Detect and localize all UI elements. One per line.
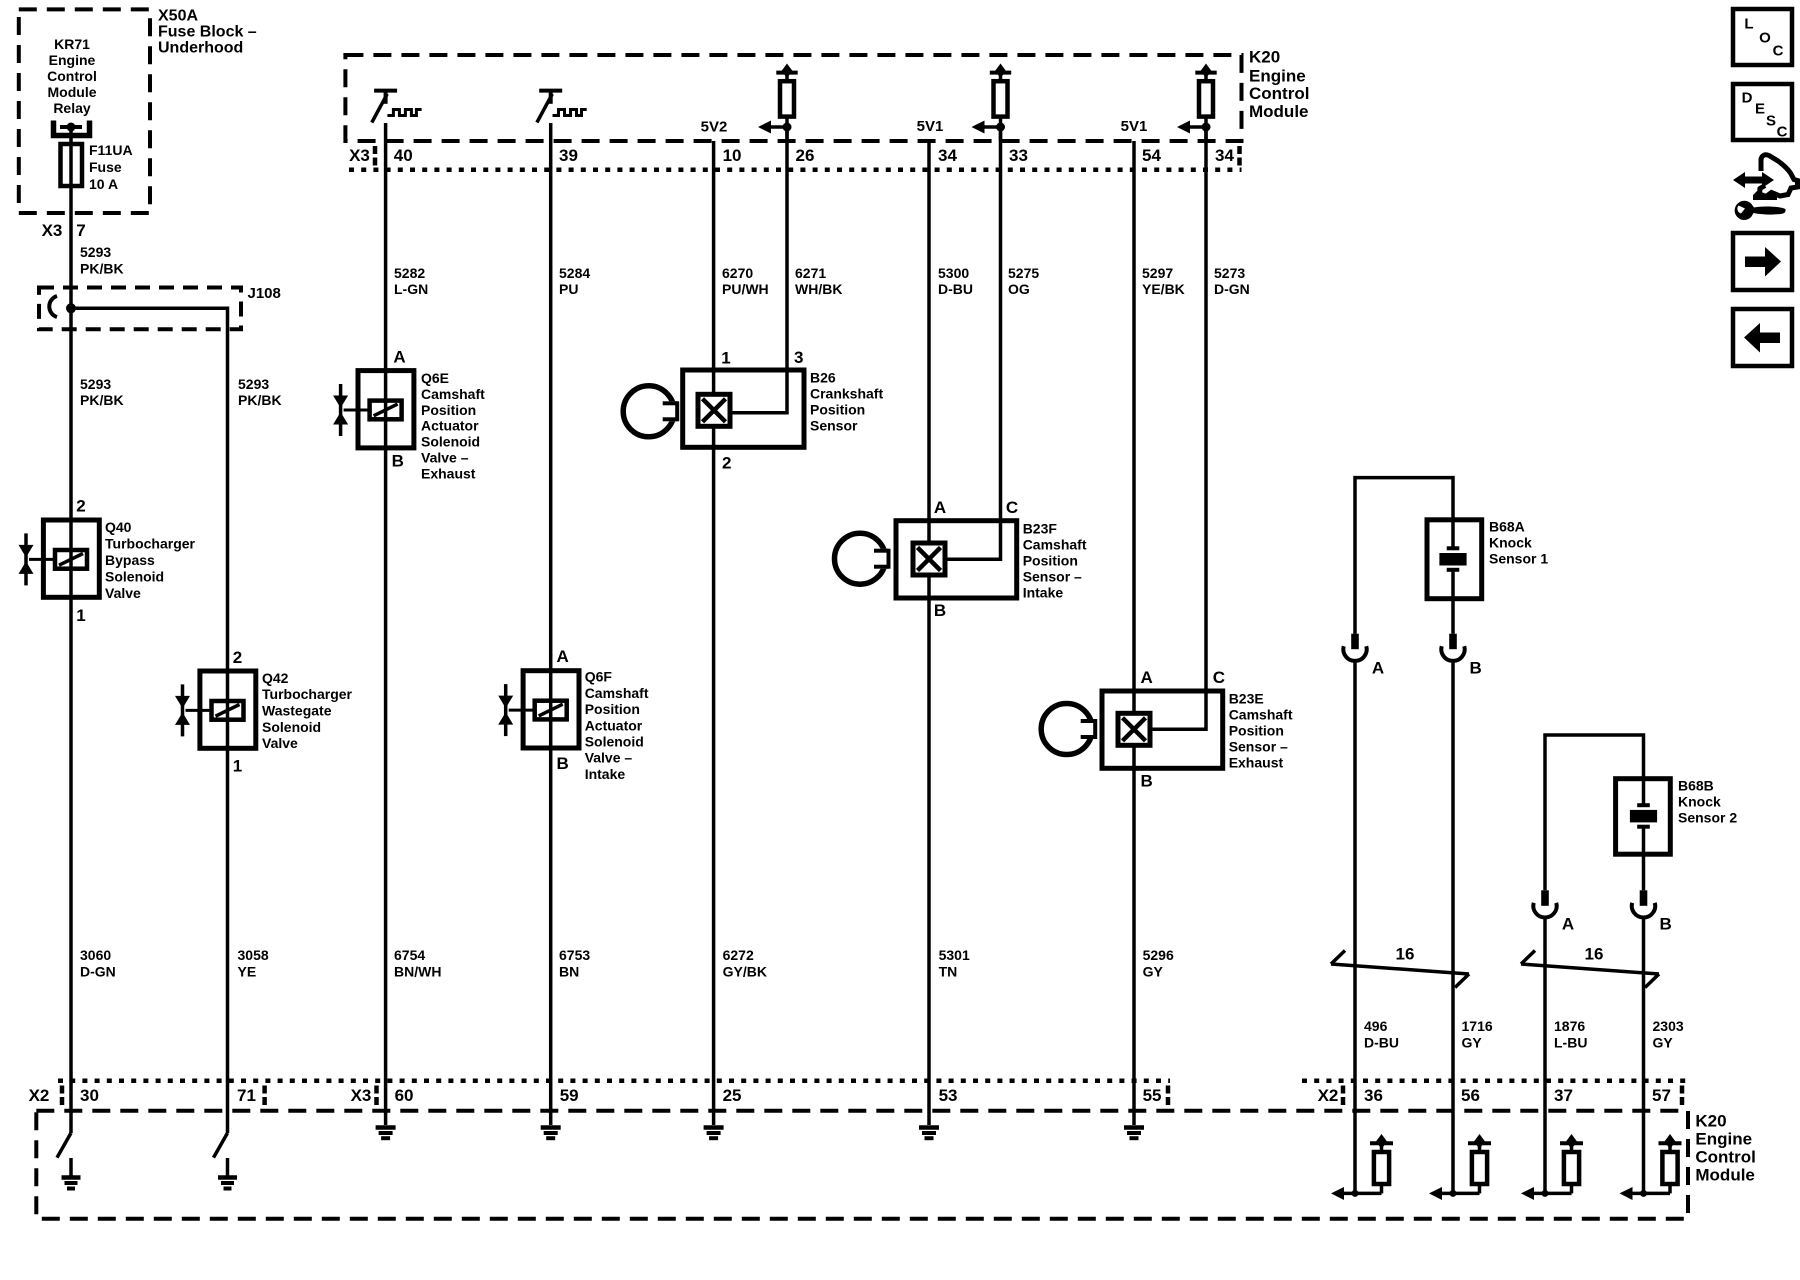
svg-text:L: L — [1744, 16, 1753, 33]
label wire 6753 BN — [559, 947, 590, 980]
svg-text:3060: 3060 — [80, 947, 111, 963]
wire B68B loop to pin A — [1545, 735, 1644, 890]
inline connector A knock sensor 1 — [1343, 634, 1366, 661]
svg-text:Intake: Intake — [585, 766, 626, 782]
svg-text:B23F: B23F — [1023, 521, 1058, 537]
wire B68A pin B lead — [1451, 599, 1455, 634]
pullup resistor pin 33 — [972, 64, 1012, 142]
label B68A Knock Sensor 1 — [1489, 519, 1548, 567]
svg-text:B68B: B68B — [1678, 778, 1714, 794]
svg-text:Q6E: Q6E — [421, 370, 449, 386]
svg-text:Solenoid: Solenoid — [105, 569, 164, 585]
reluctor ring B23E — [1041, 704, 1096, 755]
label wire 5297 YE/BK — [1142, 265, 1185, 297]
svg-text:B: B — [392, 452, 404, 471]
solenoid valve Q6E — [333, 371, 414, 448]
inline connector B knock sensor 1 — [1441, 634, 1464, 661]
label X50A Fuse Block Underhood — [158, 8, 257, 57]
svg-text:Camshaft: Camshaft — [1229, 707, 1293, 723]
label wire 5284 PU — [559, 265, 590, 297]
svg-text:39: 39 — [559, 146, 578, 165]
svg-text:C: C — [1777, 124, 1788, 141]
label relay KR71 — [47, 36, 97, 116]
svg-text:Module: Module — [48, 84, 97, 100]
svg-text:A: A — [557, 647, 569, 666]
label wire 5293 PK/BK left — [80, 376, 124, 408]
svg-text:10 A: 10 A — [89, 176, 118, 192]
label wire 496 D-BU — [1364, 1018, 1399, 1051]
svg-text:Knock: Knock — [1489, 535, 1532, 551]
svg-text:Control: Control — [1695, 1148, 1755, 1167]
svg-text:C: C — [1213, 668, 1225, 687]
label B23F pins A C B — [934, 498, 1018, 620]
svg-text:X3: X3 — [349, 146, 370, 165]
label connector letters A B knock sensor 2 — [1562, 915, 1672, 934]
svg-text:Exhaust: Exhaust — [1229, 755, 1284, 771]
label wire 6271 WH/BK — [795, 265, 842, 297]
label connector X3 pin 7 — [42, 221, 86, 240]
label wire 6272 GY/BK — [723, 947, 767, 980]
svg-text:56: 56 — [1461, 1086, 1480, 1105]
svg-text:Valve: Valve — [105, 585, 141, 601]
sensor B26 crankshaft position — [683, 370, 804, 447]
svg-text:5297: 5297 — [1142, 265, 1173, 281]
wire 6754 BN/WH — [384, 448, 388, 1081]
wire 496 D-BU — [1353, 662, 1357, 1082]
svg-text:34: 34 — [938, 146, 957, 165]
wire 1716 GY — [1451, 662, 1455, 1082]
label K20 Engine Control Module bottom — [1695, 1112, 1755, 1185]
svg-text:Valve –: Valve – — [585, 750, 633, 766]
svg-text:5284: 5284 — [559, 265, 590, 281]
label B23F Camshaft Position Sensor Intake — [1023, 521, 1087, 601]
ECM internal resistor pin 36 — [1353, 1081, 1357, 1193]
svg-text:6271: 6271 — [795, 265, 826, 281]
svg-text:25: 25 — [723, 1086, 742, 1105]
svg-text:K20: K20 — [1249, 48, 1280, 67]
svg-text:57: 57 — [1652, 1086, 1671, 1105]
svg-text:Fuse: Fuse — [89, 159, 122, 175]
switch to ground pin 30 — [57, 1081, 81, 1189]
svg-text:5296: 5296 — [1143, 947, 1174, 963]
svg-text:Camshaft: Camshaft — [421, 386, 485, 402]
label wire 5273 D-GN — [1214, 265, 1250, 297]
ECM internal resistor pin 56 — [1451, 1081, 1455, 1193]
svg-text:36: 36 — [1364, 1086, 1383, 1105]
piezo element B68A — [1439, 548, 1466, 570]
label Q40 Turbocharger Bypass Solenoid Valve — [105, 519, 196, 601]
svg-text:Intake: Intake — [1023, 585, 1064, 601]
svg-text:Bypass: Bypass — [105, 552, 155, 568]
svg-text:A: A — [934, 498, 946, 517]
label connector letters A B knock sensor 1 — [1372, 659, 1482, 678]
label F11UA Fuse 10 A — [89, 142, 133, 192]
ECM internal resistor pin 37 — [1543, 1081, 1547, 1193]
svg-text:5V2: 5V2 — [701, 119, 728, 136]
wire 5293 PK/BK relay to Q40 — [69, 129, 73, 520]
svg-text:YE/BK: YE/BK — [1142, 281, 1185, 297]
svg-text:X3: X3 — [351, 1086, 372, 1105]
svg-text:Engine: Engine — [1695, 1130, 1752, 1149]
svg-text:PK/BK: PK/BK — [80, 261, 124, 277]
inline connector A knock sensor 2 — [1533, 890, 1556, 917]
svg-text:Q40: Q40 — [105, 519, 132, 535]
svg-text:F11UA: F11UA — [89, 142, 133, 158]
svg-text:6270: 6270 — [722, 265, 753, 281]
top connector separators — [375, 146, 1240, 166]
icon adjust hand wrench — [1733, 155, 1798, 220]
wire 6272 GY/BK — [712, 447, 716, 1081]
wire B68B pin B lead — [1642, 854, 1646, 890]
svg-text:X2: X2 — [29, 1086, 50, 1105]
label wire 1716 GY — [1462, 1018, 1493, 1051]
switch to ground pin 71 — [214, 1081, 238, 1189]
svg-text:1: 1 — [721, 349, 730, 368]
svg-text:53: 53 — [939, 1086, 958, 1105]
ground pin 25 — [712, 1081, 716, 1125]
piezo element B68B — [1630, 805, 1657, 827]
svg-text:Sensor: Sensor — [810, 417, 858, 433]
svg-text:Valve: Valve — [262, 735, 298, 751]
svg-text:5300: 5300 — [938, 265, 969, 281]
svg-text:54: 54 — [1142, 146, 1161, 165]
label wire 5293 PK/BK upper — [80, 244, 124, 277]
label wire 5301 TN — [939, 947, 970, 980]
svg-text:30: 30 — [80, 1086, 99, 1105]
label K20 Engine Control Module top — [1249, 48, 1309, 122]
svg-text:6754: 6754 — [394, 947, 425, 963]
svg-text:PU: PU — [559, 281, 578, 297]
svg-text:B23E: B23E — [1229, 691, 1264, 707]
svg-text:5293: 5293 — [238, 376, 269, 392]
svg-text:L-BU: L-BU — [1554, 1035, 1587, 1051]
svg-text:Wastegate: Wastegate — [262, 703, 332, 719]
svg-text:J108: J108 — [248, 285, 281, 302]
svg-text:3: 3 — [794, 348, 803, 367]
svg-text:Actuator: Actuator — [585, 717, 643, 733]
wire 2303 GY — [1642, 918, 1646, 1081]
svg-text:Module: Module — [1249, 102, 1309, 121]
svg-text:Position: Position — [1229, 723, 1284, 739]
svg-text:16: 16 — [1396, 945, 1415, 964]
svg-text:Underhood: Underhood — [158, 40, 243, 57]
top connector row dotted line — [349, 168, 1242, 173]
pullup resistor pin 34 second — [1177, 64, 1217, 142]
wire B68A loop to pin A — [1355, 478, 1453, 634]
svg-text:Crankshaft: Crankshaft — [810, 385, 883, 401]
svg-text:X50A: X50A — [158, 8, 198, 25]
svg-text:6753: 6753 — [559, 947, 590, 963]
svg-text:Knock: Knock — [1678, 794, 1721, 810]
svg-text:D-GN: D-GN — [1214, 281, 1250, 297]
svg-text:5293: 5293 — [80, 244, 111, 260]
svg-text:5301: 5301 — [939, 947, 970, 963]
label B23E pins A C B — [1141, 668, 1225, 791]
svg-text:PK/BK: PK/BK — [238, 392, 282, 408]
svg-text:KR71: KR71 — [54, 36, 90, 52]
label wire 6270 PU/WH — [722, 265, 769, 297]
ECM K20 bottom dashed box — [36, 1111, 1688, 1219]
driver output pin 39 — [537, 91, 587, 123]
label Q42 pins 2 and 1 — [233, 648, 242, 776]
label wire 5293 PK/BK right — [238, 376, 282, 408]
svg-text:PK/BK: PK/BK — [80, 392, 124, 408]
wire 1876 L-BU — [1543, 918, 1547, 1081]
svg-text:1716: 1716 — [1462, 1018, 1493, 1034]
svg-text:S: S — [1766, 113, 1776, 130]
svg-text:60: 60 — [395, 1086, 414, 1105]
svg-text:Engine: Engine — [49, 52, 96, 68]
inline connector B knock sensor 2 — [1632, 890, 1655, 917]
svg-text:C: C — [1006, 498, 1018, 517]
svg-text:40: 40 — [394, 146, 413, 165]
svg-text:X2: X2 — [1318, 1086, 1339, 1105]
svg-text:C: C — [1773, 43, 1784, 60]
svg-text:37: 37 — [1554, 1086, 1573, 1105]
label Q40 pins 2 and 1 — [76, 497, 85, 626]
svg-text:2: 2 — [722, 454, 731, 473]
svg-text:3058: 3058 — [238, 947, 269, 963]
svg-text:5V1: 5V1 — [917, 118, 944, 135]
label wire 5296 GY — [1143, 947, 1174, 980]
splice J108 dashed box — [39, 288, 241, 330]
ground pin 59 — [549, 1081, 553, 1125]
label wire 3058 YE — [238, 947, 269, 980]
wire 6271 WH/BK — [785, 127, 789, 370]
label wire 2303 GY — [1653, 1018, 1684, 1051]
svg-text:71: 71 — [237, 1086, 256, 1105]
svg-text:Q6F: Q6F — [585, 669, 613, 685]
svg-text:Valve –: Valve – — [421, 449, 469, 465]
svg-text:59: 59 — [560, 1086, 579, 1105]
svg-text:YE: YE — [238, 964, 257, 980]
icon DESC box — [1733, 84, 1792, 141]
svg-text:6272: 6272 — [723, 947, 754, 963]
svg-text:B26: B26 — [810, 369, 836, 385]
svg-text:A: A — [1372, 659, 1384, 678]
wire 5273 D-GN — [1204, 127, 1208, 691]
wire 5301 TN — [927, 598, 931, 1081]
svg-text:2: 2 — [233, 648, 242, 667]
svg-text:D-BU: D-BU — [1364, 1035, 1399, 1051]
wire 5296 GY — [1132, 768, 1136, 1081]
svg-text:Control: Control — [47, 68, 97, 84]
wire 3060 D-GN — [69, 597, 73, 1081]
svg-text:26: 26 — [796, 146, 815, 165]
driver output pin 40 — [372, 91, 422, 123]
svg-text:Camshaft: Camshaft — [585, 685, 649, 701]
svg-text:7: 7 — [76, 221, 85, 240]
svg-text:D: D — [1742, 90, 1753, 107]
svg-text:5293: 5293 — [80, 376, 111, 392]
svg-text:B: B — [1141, 772, 1153, 791]
label Q6E Camshaft Position Actuator Solenoid Valve Exhaust — [421, 370, 485, 481]
label wire 6754 BN/WH — [394, 947, 441, 980]
wire 5282 L-GN — [384, 123, 388, 371]
icon LOC box — [1733, 9, 1792, 65]
node J108 junction — [66, 303, 76, 313]
icon arrow right box — [1733, 233, 1792, 290]
ground pin 55 — [1132, 1081, 1136, 1125]
svg-text:Solenoid: Solenoid — [262, 719, 321, 735]
svg-text:K20: K20 — [1695, 1112, 1726, 1131]
svg-text:WH/BK: WH/BK — [795, 281, 842, 297]
label Q6F pins A and B — [557, 647, 569, 773]
svg-text:PU/WH: PU/WH — [722, 281, 769, 297]
ground pin 60 — [384, 1081, 388, 1125]
svg-text:5V1: 5V1 — [1121, 118, 1148, 135]
label wire 5275 OG — [1008, 265, 1039, 297]
svg-text:OG: OG — [1008, 281, 1030, 297]
wire B68B internal — [1642, 779, 1646, 855]
icon arrow left box — [1733, 309, 1792, 366]
svg-text:A: A — [1562, 915, 1574, 934]
reluctor ring B26 — [623, 386, 678, 437]
svg-text:16: 16 — [1585, 945, 1604, 964]
svg-text:33: 33 — [1009, 146, 1028, 165]
svg-text:1: 1 — [76, 606, 85, 625]
svg-text:B: B — [934, 601, 946, 620]
label B26 pins 1 3 2 — [721, 348, 803, 473]
svg-text:GY/BK: GY/BK — [723, 964, 767, 980]
svg-text:5282: 5282 — [394, 265, 425, 281]
sensor B23E camshaft position exhaust — [1102, 691, 1223, 768]
svg-text:Exhaust: Exhaust — [421, 465, 476, 481]
svg-text:2: 2 — [76, 497, 85, 516]
wire B68A internal — [1451, 520, 1455, 599]
svg-text:Solenoid: Solenoid — [421, 434, 480, 450]
svg-text:Solenoid: Solenoid — [585, 734, 644, 750]
svg-text:BN/WH: BN/WH — [394, 964, 441, 980]
svg-text:GY: GY — [1653, 1035, 1674, 1051]
svg-text:D-BU: D-BU — [938, 281, 973, 297]
svg-text:Actuator: Actuator — [421, 418, 479, 434]
bottom connector row dotted line right — [1302, 1078, 1688, 1083]
wire 5275 OG — [999, 127, 1003, 521]
svg-text:X3: X3 — [42, 221, 63, 240]
svg-text:Sensor 2: Sensor 2 — [1678, 810, 1737, 826]
knock sensor B68B box — [1616, 779, 1671, 855]
ground pin 53 — [927, 1081, 931, 1125]
svg-text:Turbocharger: Turbocharger — [262, 686, 353, 702]
svg-text:5273: 5273 — [1214, 265, 1245, 281]
relay KR71 contact symbol — [54, 121, 90, 136]
svg-text:B: B — [557, 754, 569, 773]
svg-text:Fuse Block –: Fuse Block – — [158, 24, 257, 41]
wire 6270 PU/WH pin 10 — [712, 141, 716, 370]
svg-text:1: 1 — [233, 757, 242, 776]
bottom connector row dotted line left — [58, 1078, 1170, 1083]
wire 5300 D-BU pin 34 — [927, 141, 931, 521]
fuse block X50A dashed box — [19, 9, 150, 213]
svg-text:Sensor 1: Sensor 1 — [1489, 551, 1548, 567]
label Q6E pins A and B — [392, 348, 406, 471]
wire 6753 BN — [549, 748, 553, 1081]
svg-text:L-GN: L-GN — [394, 281, 428, 297]
svg-text:Turbocharger: Turbocharger — [105, 536, 196, 552]
svg-text:55: 55 — [1143, 1086, 1162, 1105]
solenoid valve Q42 — [175, 671, 256, 748]
svg-text:Sensor –: Sensor – — [1229, 739, 1288, 755]
svg-text:34: 34 — [1215, 146, 1234, 165]
label Q42 Turbocharger Wastegate Solenoid Valve — [262, 670, 353, 751]
svg-text:5275: 5275 — [1008, 265, 1039, 281]
svg-text:Engine: Engine — [1249, 66, 1306, 85]
bottom connector separators — [62, 1086, 1682, 1106]
svg-text:GY: GY — [1462, 1035, 1483, 1051]
svg-text:Position: Position — [421, 402, 476, 418]
svg-text:BN: BN — [559, 964, 579, 980]
ECM K20 top dashed box — [345, 55, 1241, 141]
svg-text:Position: Position — [1023, 553, 1078, 569]
pickup element B23F — [913, 543, 945, 575]
svg-text:A: A — [393, 348, 405, 367]
pullup resistor pin 26 — [758, 64, 798, 142]
sensor B23F camshaft position intake — [896, 521, 1017, 598]
label wire 5282 L-GN — [394, 265, 428, 297]
ECM internal resistor pin 57 — [1642, 1081, 1646, 1193]
label B68B Knock Sensor 2 — [1678, 778, 1737, 826]
wire jumper J108 to Q42 — [71, 308, 228, 671]
twisted pair 16 knock sensor 1 — [1331, 951, 1469, 988]
svg-text:A: A — [1141, 668, 1153, 687]
label Q6F Camshaft Position Actuator Solenoid Valve Intake — [585, 669, 649, 782]
svg-text:GY: GY — [1143, 964, 1164, 980]
svg-text:Position: Position — [810, 401, 865, 417]
svg-text:10: 10 — [723, 146, 742, 165]
svg-text:Q42: Q42 — [262, 670, 289, 686]
svg-text:B: B — [1469, 659, 1481, 678]
label wire 3060 D-GN — [80, 947, 116, 980]
wire 5297 YE/BK pin 54 — [1132, 141, 1136, 691]
label B26 Crankshaft Position Sensor — [810, 369, 883, 433]
solenoid valve Q40 — [19, 520, 100, 597]
svg-text:Control: Control — [1249, 84, 1309, 103]
twisted pair 16 knock sensor 2 — [1521, 951, 1659, 988]
svg-text:E: E — [1755, 101, 1765, 118]
svg-text:B68A: B68A — [1489, 519, 1525, 535]
svg-text:Camshaft: Camshaft — [1023, 537, 1087, 553]
svg-text:496: 496 — [1364, 1018, 1388, 1034]
splice J108 hook — [49, 296, 57, 317]
svg-text:1876: 1876 — [1554, 1018, 1585, 1034]
svg-text:Sensor –: Sensor – — [1023, 569, 1082, 585]
label B23E Camshaft Position Sensor Exhaust — [1229, 691, 1293, 771]
svg-text:TN: TN — [939, 964, 958, 980]
label wire 5300 D-BU — [938, 265, 973, 297]
reluctor ring B23F — [835, 533, 890, 584]
solenoid valve Q6F — [498, 671, 579, 748]
svg-text:B: B — [1659, 915, 1671, 934]
label wire 1876 L-BU — [1554, 1018, 1587, 1051]
pickup element B26 — [698, 394, 730, 426]
wire 5284 PU — [549, 123, 553, 671]
svg-text:D-GN: D-GN — [80, 964, 116, 980]
wire 3058 YE — [226, 748, 230, 1081]
pickup element B23E — [1118, 713, 1150, 745]
svg-text:Position: Position — [585, 701, 640, 717]
svg-text:O: O — [1759, 30, 1771, 47]
knock sensor B68A box — [1427, 520, 1482, 599]
fuse F11UA — [61, 144, 83, 186]
svg-text:Relay: Relay — [53, 100, 91, 116]
svg-text:2303: 2303 — [1653, 1018, 1684, 1034]
svg-text:Module: Module — [1695, 1166, 1755, 1185]
